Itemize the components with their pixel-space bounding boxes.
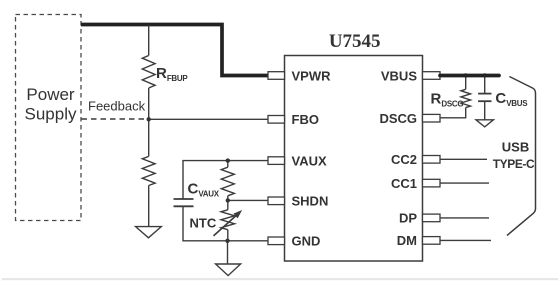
svg-text:U7545: U7545 (329, 31, 381, 52)
svg-text:VBUS: VBUS (381, 68, 417, 83)
svg-text:CC2: CC2 (391, 152, 417, 167)
svg-text:VAUX: VAUX (292, 153, 327, 168)
svg-text:Supply: Supply (25, 105, 77, 124)
svg-text:DSCG: DSCG (379, 111, 417, 126)
svg-text:DM: DM (397, 233, 417, 248)
svg-text:FBO: FBO (292, 112, 319, 127)
svg-text:GND: GND (292, 234, 321, 249)
svg-text:VPWR: VPWR (292, 68, 332, 83)
svg-text:USB: USB (502, 140, 529, 155)
svg-text:NTC: NTC (190, 216, 217, 231)
svg-text:Power: Power (26, 85, 75, 104)
svg-text:CC1: CC1 (391, 176, 417, 191)
svg-text:TYPE-C: TYPE-C (493, 157, 535, 171)
svg-text:Feedback: Feedback (88, 99, 146, 114)
svg-text:DP: DP (399, 211, 417, 226)
svg-text:SHDN: SHDN (292, 194, 329, 209)
